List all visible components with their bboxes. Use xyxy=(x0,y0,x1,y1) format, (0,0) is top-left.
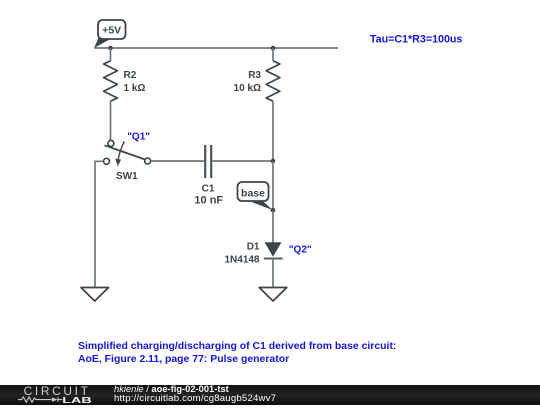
footer bar xyxy=(0,385,540,405)
node junction C1/R3 xyxy=(271,159,276,164)
resistor R3 xyxy=(234,61,280,101)
CircuitLab logo xyxy=(18,384,92,405)
svg-text:"Q1": "Q1" xyxy=(127,132,150,143)
svg-text:1N4148: 1N4148 xyxy=(224,254,259,265)
svg-text:R3: R3 xyxy=(248,70,261,81)
ground right xyxy=(259,288,287,302)
footer title text xyxy=(114,384,276,404)
wire R3 bottom to cap node xyxy=(272,48,274,161)
switch SW1 xyxy=(104,140,151,182)
wire base node to diode xyxy=(272,210,274,242)
svg-text:base: base xyxy=(241,188,265,200)
svg-text:LAB: LAB xyxy=(62,395,92,405)
wire R3 node down to base node xyxy=(272,161,274,210)
wire switch right throw to C1 xyxy=(151,160,205,162)
svg-text:10 nF: 10 nF xyxy=(194,195,223,207)
svg-text:Simplified charging/dischargin: Simplified charging/discharging of C1 de… xyxy=(78,341,396,352)
svg-text:http://circuitlab.com/cg8augb5: http://circuitlab.com/cg8augb524wv7 xyxy=(114,393,276,404)
resistor R2 xyxy=(104,61,146,101)
diode D1 xyxy=(224,241,282,265)
svg-text:Tau=C1*R3=100us: Tau=C1*R3=100us xyxy=(370,33,463,45)
annotation Tau xyxy=(370,33,463,45)
svg-text:C1: C1 xyxy=(202,184,215,195)
wire C1 to R3 branch xyxy=(212,160,273,162)
annotation bottom line 1 xyxy=(78,341,396,352)
svg-text:D1: D1 xyxy=(247,241,260,252)
node junction R3 top xyxy=(271,46,276,51)
svg-text:1 kΩ: 1 kΩ xyxy=(124,83,146,94)
label Q2 xyxy=(289,245,312,256)
svg-text:R2: R2 xyxy=(124,70,137,81)
net flag base xyxy=(238,182,274,210)
svg-text:SW1: SW1 xyxy=(116,171,138,182)
svg-text:10 kΩ: 10 kΩ xyxy=(234,83,261,94)
svg-text:AoE, Figure 2.11, page 77: Pul: AoE, Figure 2.11, page 77: Pulse generat… xyxy=(78,354,289,365)
wire switch left throw to ground run xyxy=(95,161,104,287)
ground left xyxy=(81,288,109,302)
svg-text:"Q2": "Q2" xyxy=(289,245,312,256)
node junction R2 top xyxy=(108,46,113,51)
node junction base xyxy=(271,208,276,213)
wire R2 bottom to switch xyxy=(110,48,112,140)
capacitor C1 xyxy=(194,145,223,207)
label Q1 xyxy=(127,132,150,143)
wire diode to ground xyxy=(272,259,274,288)
svg-text:+5V: +5V xyxy=(102,25,121,37)
annotation bottom line 2 xyxy=(78,354,289,365)
power flag +5V xyxy=(94,20,125,48)
wire top horizontal net xyxy=(94,47,338,49)
